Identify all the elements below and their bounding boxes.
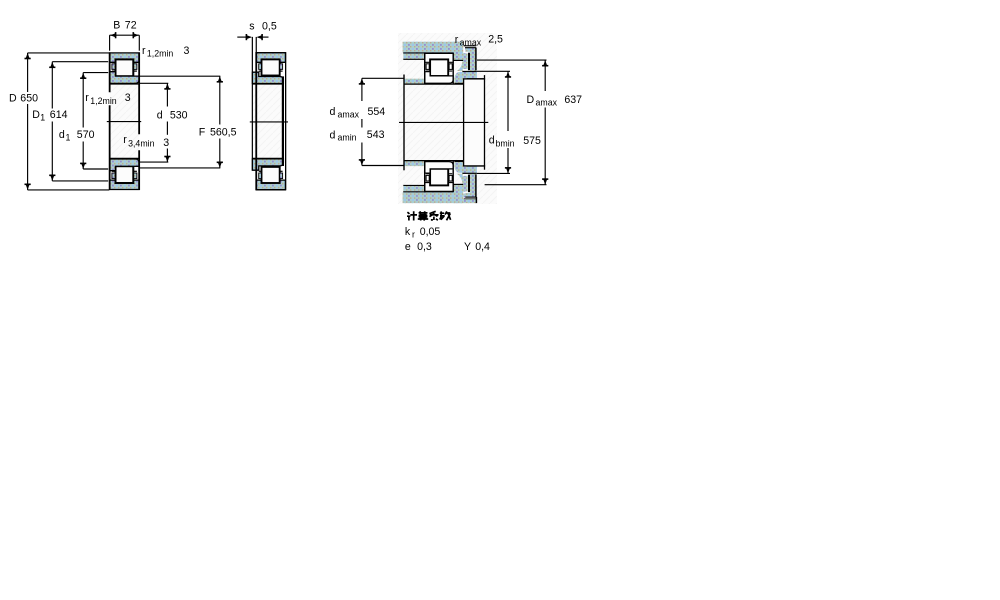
svg-text:0,05: 0,05: [420, 226, 441, 238]
svg-text:560,5: 560,5: [210, 126, 237, 138]
svg-text:614: 614: [50, 109, 68, 121]
svg-text:3: 3: [163, 137, 169, 149]
svg-text:2,5: 2,5: [488, 33, 503, 45]
svg-text:B: B: [113, 19, 120, 31]
svg-text:r: r: [142, 45, 146, 57]
svg-text:r: r: [455, 34, 459, 46]
svg-text:575: 575: [523, 135, 541, 147]
svg-text:530: 530: [170, 110, 188, 122]
svg-text:D: D: [32, 109, 40, 121]
svg-text:3,4min: 3,4min: [128, 138, 155, 148]
svg-text:Y: Y: [464, 241, 471, 253]
svg-text:r: r: [85, 92, 89, 104]
svg-text:amax: amax: [338, 110, 360, 120]
svg-text:F: F: [199, 126, 206, 138]
svg-text:1: 1: [66, 133, 71, 143]
svg-text:0,4: 0,4: [475, 241, 490, 253]
svg-text:d: d: [489, 135, 495, 147]
svg-text:r: r: [412, 230, 415, 240]
svg-text:1: 1: [40, 113, 45, 123]
svg-text:570: 570: [77, 129, 95, 141]
svg-text:amin: amin: [338, 133, 357, 143]
svg-text:554: 554: [368, 106, 386, 118]
svg-text:d: d: [330, 129, 336, 141]
svg-text:D: D: [527, 94, 535, 106]
svg-text:3: 3: [184, 45, 190, 57]
svg-text:72: 72: [125, 19, 137, 31]
svg-text:1,2min: 1,2min: [147, 49, 174, 59]
svg-text:d: d: [157, 110, 163, 122]
svg-text:650: 650: [20, 92, 38, 104]
svg-text:0,3: 0,3: [417, 241, 432, 253]
svg-text:amax: amax: [536, 98, 558, 108]
svg-text:r: r: [123, 134, 127, 146]
svg-text:1,2min: 1,2min: [90, 96, 117, 106]
svg-text:543: 543: [367, 129, 385, 141]
svg-text:bmin: bmin: [496, 139, 515, 149]
svg-text:d: d: [330, 106, 336, 118]
svg-text:amax: amax: [460, 37, 482, 47]
svg-text:3: 3: [125, 92, 131, 104]
svg-text:k: k: [405, 226, 411, 238]
svg-text:0,5: 0,5: [262, 21, 277, 33]
svg-text:637: 637: [564, 94, 582, 106]
svg-text:d: d: [59, 129, 65, 141]
svg-text:D: D: [9, 92, 17, 104]
svg-text:s: s: [249, 21, 254, 33]
svg-text:e: e: [405, 241, 411, 253]
